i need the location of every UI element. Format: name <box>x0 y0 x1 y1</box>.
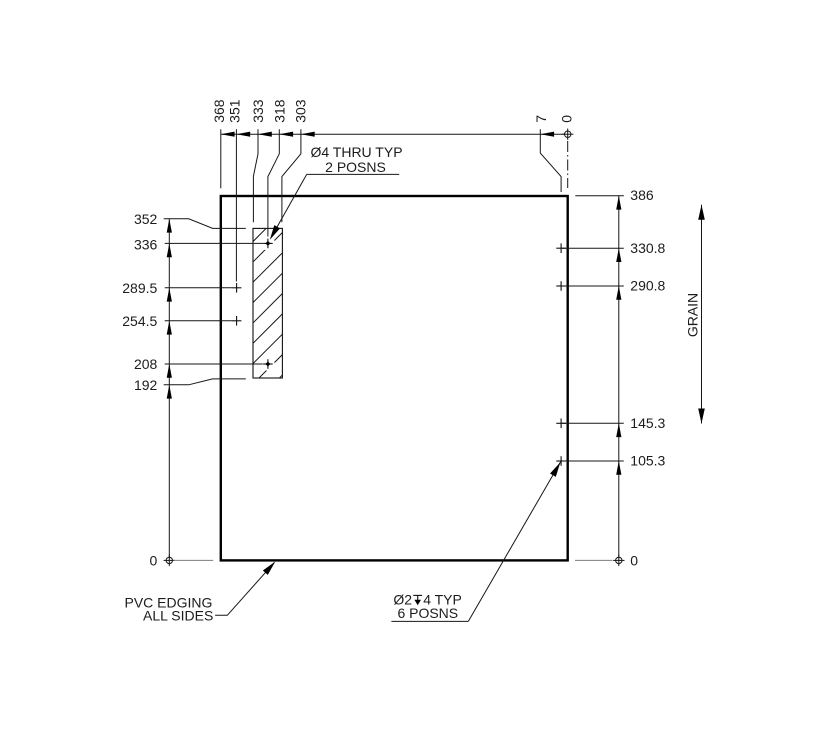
depth symbol <box>413 595 422 600</box>
white halo around lower hole in hatch <box>261 358 274 371</box>
left datum origin circle <box>164 555 175 566</box>
svg-text:192: 192 <box>134 377 158 393</box>
svg-text:GRAIN: GRAIN <box>685 293 701 337</box>
right dimension chain vertical <box>618 196 620 557</box>
hole cross B (318, 208) <box>263 359 273 369</box>
208 dimension line to hole B <box>165 363 263 365</box>
top chain arrow at 7 <box>540 132 554 137</box>
hole cross H (7, 105.3) <box>556 456 566 466</box>
top chain arrow at 368 <box>221 132 235 137</box>
note underline <box>307 173 400 175</box>
289.5 dimension line to hole C <box>165 287 232 289</box>
extension line 318 (jogged) <box>268 129 279 236</box>
330.8 tick <box>561 247 624 249</box>
hole cross C (351, 289.5) <box>232 283 242 293</box>
extension line 351 <box>235 129 237 281</box>
svg-text:2 POSNS: 2 POSNS <box>325 159 386 175</box>
top chain arrow at 318 <box>279 132 293 137</box>
386 tick <box>575 195 624 197</box>
svg-text:333: 333 <box>250 99 266 123</box>
145.3 tick <box>561 422 624 424</box>
192 tick and jog to hatch bottom <box>164 379 246 385</box>
svg-text:0: 0 <box>559 115 575 123</box>
panel outline <box>221 196 568 560</box>
GRAIN double arrow <box>701 205 703 424</box>
svg-text:303: 303 <box>293 99 309 123</box>
extension line 7 (jogged) <box>540 129 561 192</box>
top datum origin circle <box>562 129 573 140</box>
svg-text:105.3: 105.3 <box>630 453 665 469</box>
top dimension chain line <box>221 133 565 135</box>
svg-text:351: 351 <box>227 99 243 123</box>
left dimension chain vertical <box>168 219 170 557</box>
hole cross G (7, 145.3) <box>556 419 566 429</box>
svg-text:0: 0 <box>630 552 638 568</box>
hatch lines <box>253 192 282 405</box>
svg-text:318: 318 <box>271 99 287 123</box>
hole cross A (318, 336) <box>263 239 273 249</box>
left chain arrows <box>167 219 172 233</box>
hole cross D (351, 254.5) <box>232 316 242 326</box>
right datum origin circle <box>613 555 624 566</box>
svg-text:290.8: 290.8 <box>630 278 665 294</box>
white halo around upper hole in hatch <box>261 237 274 250</box>
hole cross E (7, 330.8) <box>556 243 566 253</box>
svg-text:Ø4 THRU TYP: Ø4 THRU TYP <box>310 144 402 160</box>
254.5 dimension line to hole D <box>165 320 232 322</box>
PVC leader <box>215 563 274 616</box>
leader to hole A <box>271 174 307 237</box>
svg-text:0: 0 <box>150 552 158 568</box>
svg-text:7: 7 <box>533 115 549 123</box>
leader to hole H <box>468 460 561 621</box>
svg-text:352: 352 <box>134 211 158 227</box>
105.3 tick <box>561 460 624 462</box>
svg-text:336: 336 <box>134 236 158 252</box>
hatched cutout rectangle <box>253 228 282 378</box>
290.8 tick <box>561 285 624 287</box>
svg-text:289.5: 289.5 <box>122 280 157 296</box>
left 0 tick (gray) <box>174 559 214 561</box>
svg-text:ALL SIDES: ALL SIDES <box>143 608 213 624</box>
svg-text:386: 386 <box>630 187 654 203</box>
top chain arrow at 351 <box>236 132 250 137</box>
note underline <box>391 620 468 622</box>
extension line 333 (jogged) <box>253 129 258 222</box>
svg-text:145.3: 145.3 <box>630 415 665 431</box>
hole B diamond <box>265 362 270 367</box>
svg-text:6 POSNS: 6 POSNS <box>397 605 458 621</box>
svg-text:254.5: 254.5 <box>122 313 157 329</box>
svg-text:208: 208 <box>134 356 158 372</box>
top chain arrow at 303 <box>301 132 315 137</box>
336 dimension line to hole A <box>165 242 263 244</box>
hole A diamond <box>265 241 270 246</box>
centerline below top datum <box>567 141 569 188</box>
extension line 303 (jogged) <box>282 129 301 222</box>
right chain arrows <box>616 196 621 210</box>
352 tick and jog to hatch top <box>164 219 246 229</box>
right 0 tick (gray) <box>575 559 613 561</box>
svg-text:330.8: 330.8 <box>630 240 665 256</box>
hole cross F (7, 290.8) <box>556 281 566 291</box>
extension line 368 <box>220 129 222 188</box>
top chain arrow at 333 <box>258 132 272 137</box>
svg-text:368: 368 <box>211 99 227 123</box>
